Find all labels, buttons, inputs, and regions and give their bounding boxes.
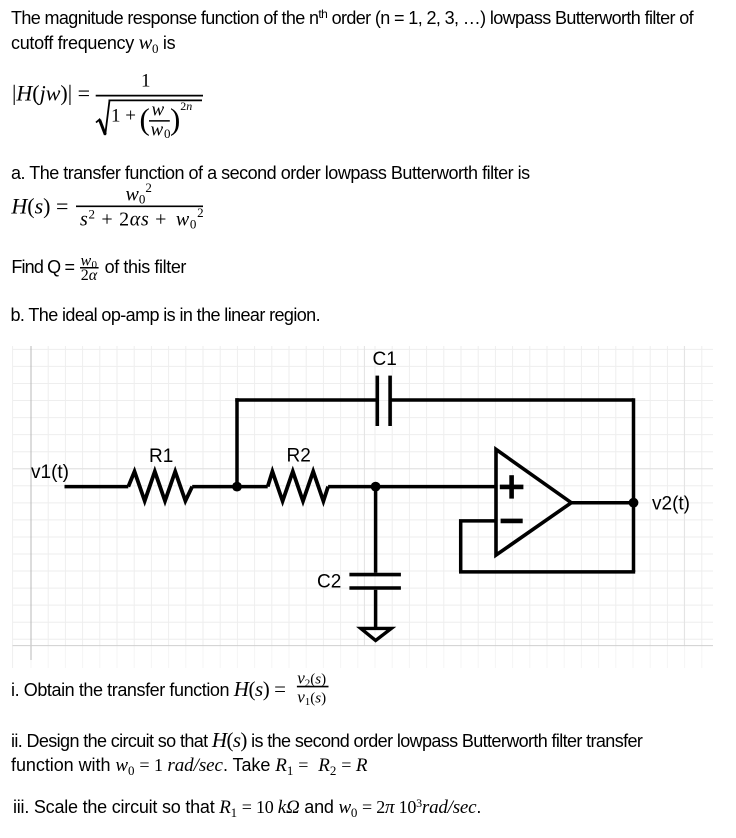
paragraph line 2 xyxy=(11,32,175,55)
i. line xyxy=(11,677,286,702)
grid background (decorative) xyxy=(13,346,713,668)
op-amp output wire xyxy=(571,501,633,505)
wire R1 to node A xyxy=(192,485,237,489)
capacitor C2 bottom plate xyxy=(349,586,401,590)
resistor R1 xyxy=(128,472,192,501)
a. line xyxy=(11,163,530,184)
node A junction dot xyxy=(232,482,242,492)
feedback bottom wire xyxy=(459,570,635,574)
wire C2 to ground xyxy=(374,590,378,628)
svg-text:v1(s): v1(s) xyxy=(297,687,326,708)
circuit schematic xyxy=(12,345,713,670)
node B junction dot xyxy=(371,482,381,492)
iii. line xyxy=(13,797,481,819)
wire top right xyxy=(390,398,633,402)
paragraph line 1 xyxy=(11,8,693,29)
wire top left xyxy=(235,398,377,402)
capacitor C2 top plate xyxy=(349,573,401,577)
op-amp U1 triangle xyxy=(496,449,571,555)
ii. line 1 xyxy=(11,728,642,753)
wire R2 to node B xyxy=(328,485,376,489)
wire node A up xyxy=(235,398,239,488)
node v2 junction dot xyxy=(629,498,639,508)
op-amp plus sign xyxy=(500,475,524,498)
wire node B down to C2 xyxy=(374,487,378,573)
wire node B to op-amp xyxy=(376,485,496,489)
resistor R2 xyxy=(268,472,328,502)
Find Q line xyxy=(11,257,74,278)
wire right vertical xyxy=(632,398,636,572)
b. line xyxy=(11,305,320,326)
capacitor C1 right plate xyxy=(388,376,392,426)
ii. line 2 xyxy=(11,755,367,777)
op-amp minus sign xyxy=(501,519,523,524)
ground symbol xyxy=(361,628,392,640)
wire node A to R2 xyxy=(237,485,268,489)
wire input stub xyxy=(65,485,129,489)
wires and components group xyxy=(65,376,636,641)
capacitor C1 left plate xyxy=(375,376,379,426)
op-amp feedback wire from minus input xyxy=(461,521,496,572)
